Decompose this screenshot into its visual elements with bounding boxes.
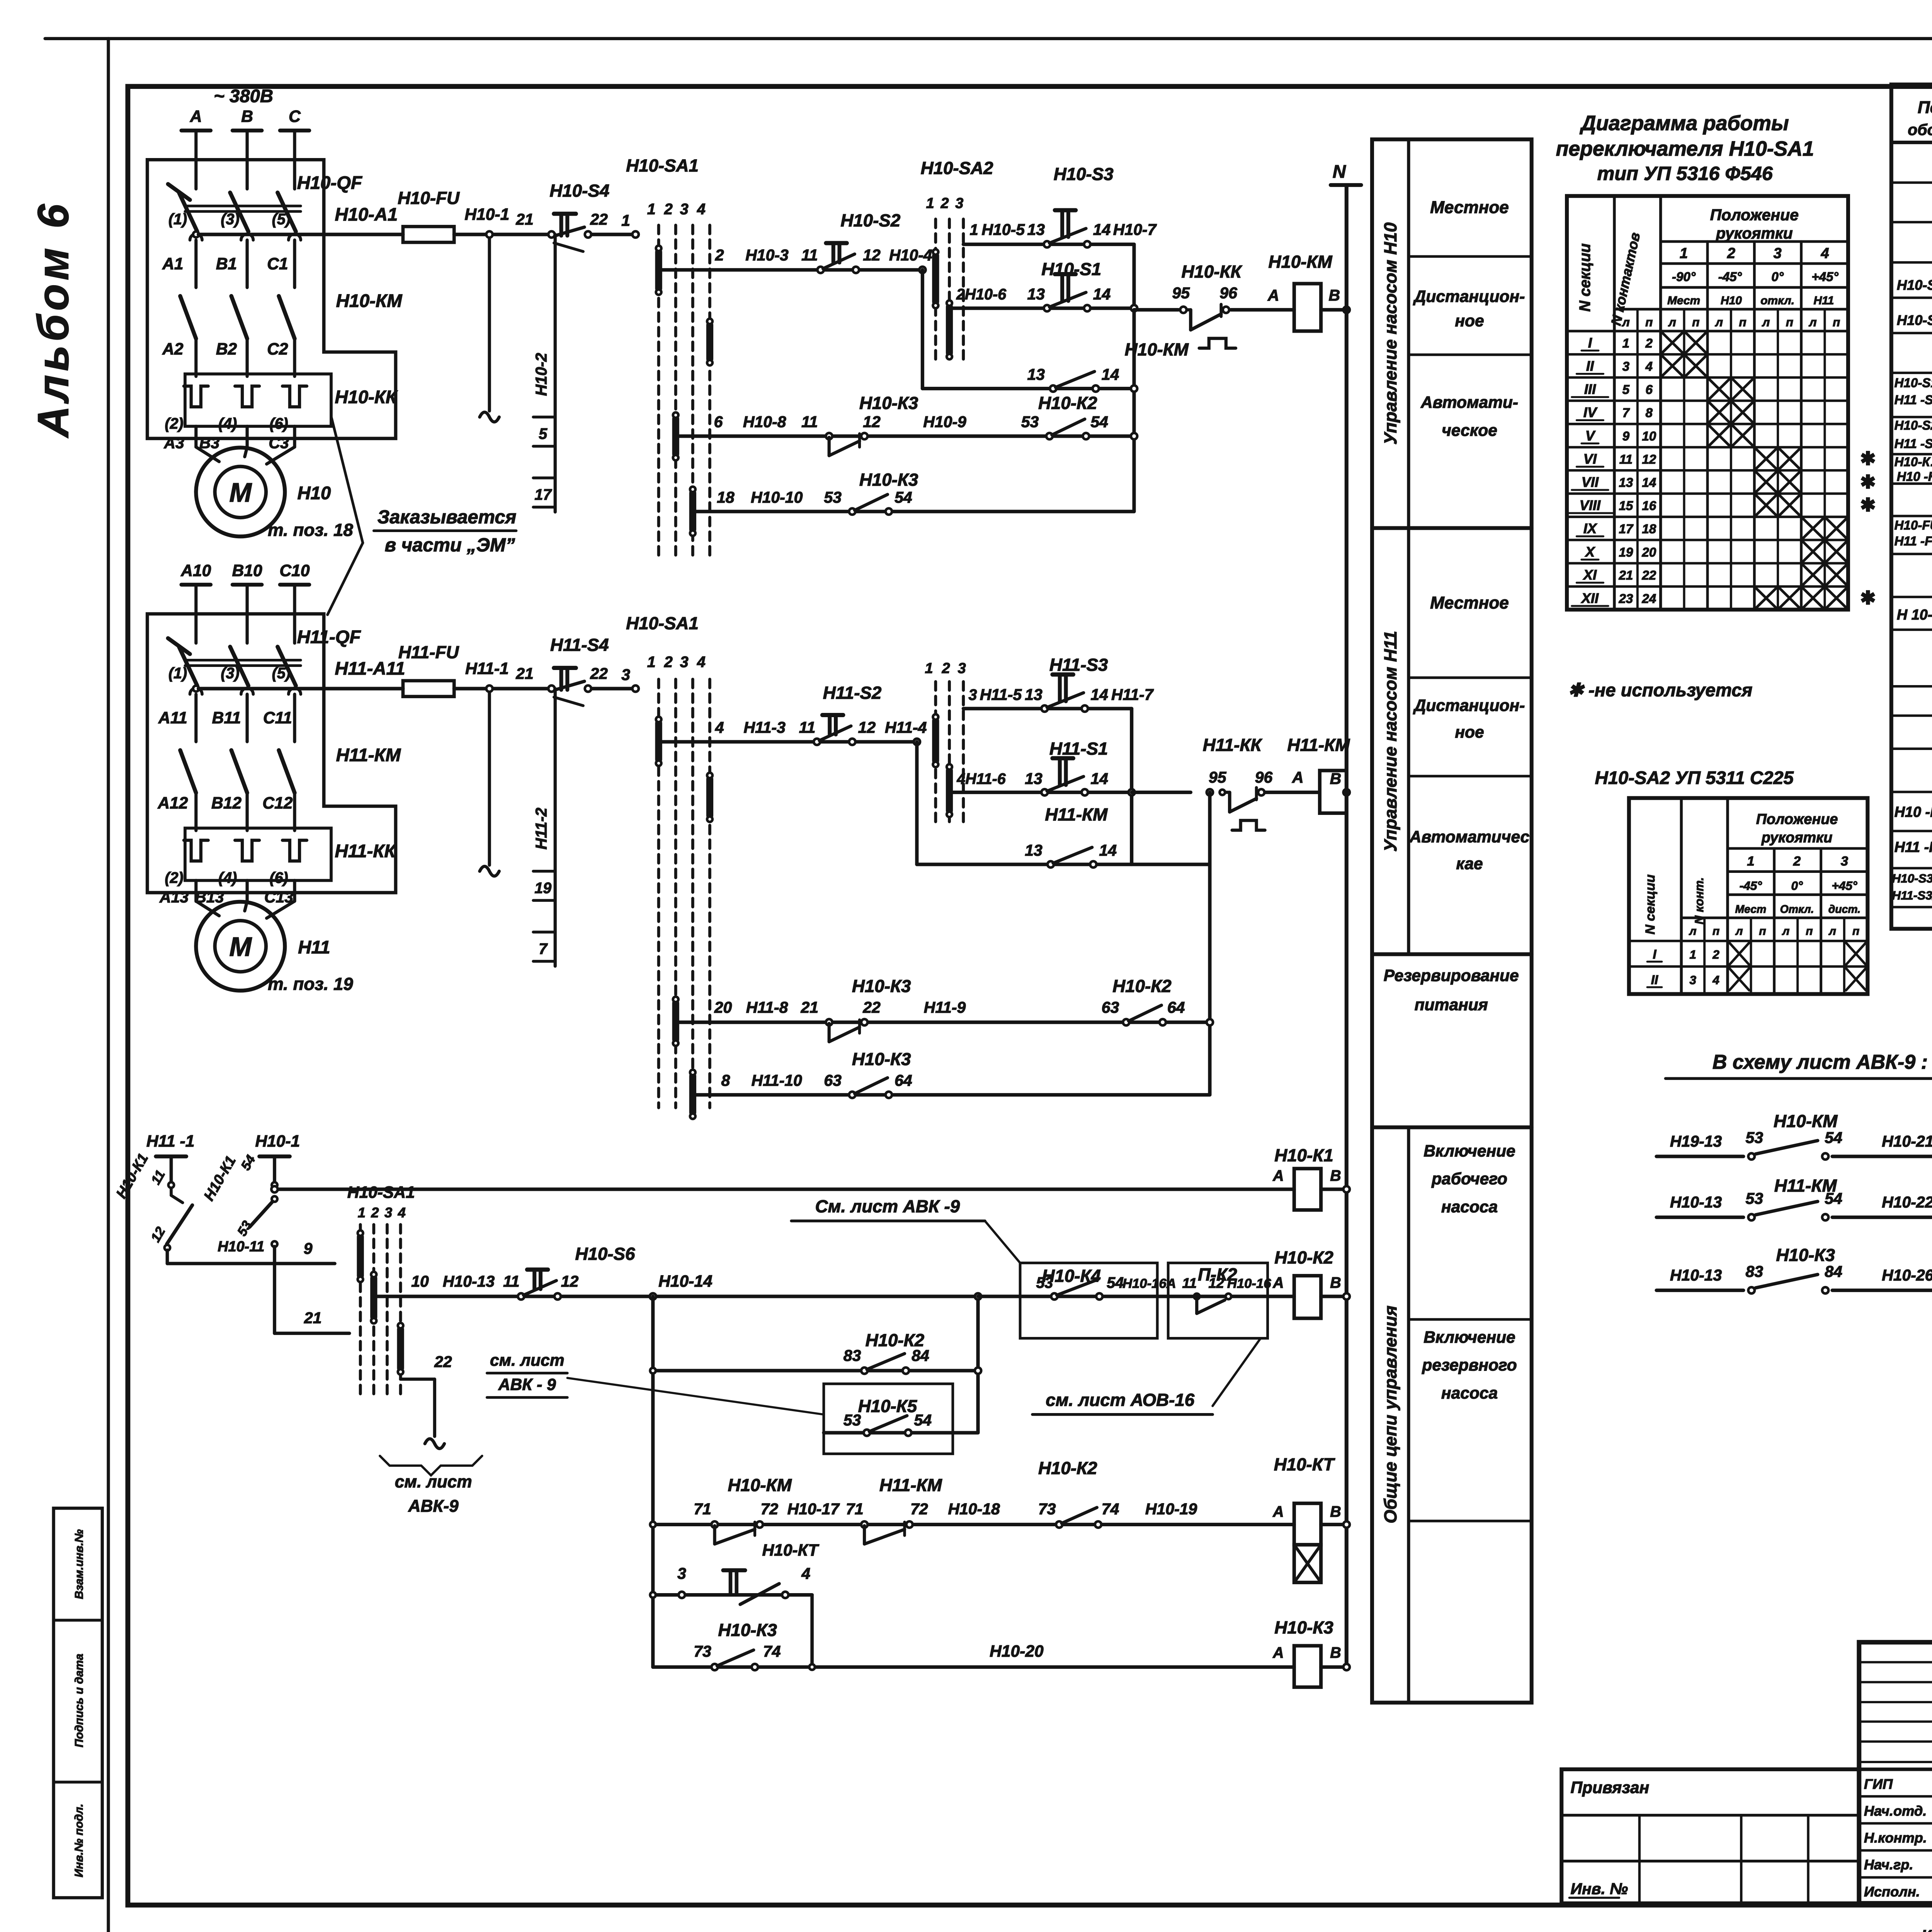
svg-text:Н10-4: Н10-4: [889, 246, 932, 264]
svg-text:Н10-К3: Н10-К3: [1274, 1618, 1333, 1638]
svg-text:л: л: [1828, 925, 1836, 937]
svg-text:17: 17: [1619, 522, 1633, 536]
svg-text:п: п: [1786, 315, 1793, 329]
svg-text:ное: ное: [1455, 311, 1484, 330]
svg-text:3: 3: [958, 660, 966, 677]
svg-text:64: 64: [895, 1071, 912, 1089]
svg-text:Н10-SA1: Н10-SA1: [626, 614, 699, 633]
svg-text:Н11-S3: Н11-S3: [1049, 655, 1108, 675]
svg-text:XI: XI: [1583, 567, 1597, 583]
svg-text:11: 11: [801, 413, 818, 431]
svg-text:Н11-7: Н11-7: [1111, 685, 1154, 703]
svg-text:В: В: [1330, 1503, 1341, 1520]
svg-text:Н11-1: Н11-1: [465, 659, 509, 678]
svg-text:13: 13: [1027, 221, 1045, 238]
svg-text:8: 8: [721, 1071, 730, 1089]
svg-text:Н10-9: Н10-9: [923, 413, 966, 431]
svg-text:2: 2: [715, 246, 724, 264]
svg-text:Н11-КМ: Н11-КМ: [336, 745, 401, 765]
svg-text:обозн.: обозн.: [1908, 121, 1932, 139]
svg-text:Исполн.: Исполн.: [1864, 1884, 1920, 1900]
svg-text:Н10-21: Н10-21: [1882, 1133, 1932, 1150]
svg-text:Взам.инв.№: Взам.инв.№: [73, 1529, 85, 1599]
svg-text:21: 21: [515, 665, 534, 682]
svg-text:71: 71: [846, 1500, 864, 1518]
svg-text:53: 53: [1021, 413, 1039, 431]
svg-text:см. лист: см. лист: [395, 1473, 472, 1492]
svg-text:Н10-3: Н10-3: [745, 246, 789, 264]
svg-text:3: 3: [384, 1204, 392, 1220]
svg-text:п: п: [1713, 925, 1719, 937]
svg-text:20: 20: [1641, 545, 1656, 560]
svg-text:73: 73: [694, 1643, 711, 1660]
svg-text:4: 4: [801, 1565, 810, 1582]
svg-text:л: л: [1689, 925, 1697, 937]
svg-text:С2: С2: [267, 340, 288, 358]
svg-text:21: 21: [304, 1309, 322, 1327]
svg-text:2: 2: [371, 1204, 379, 1220]
svg-text:Н11: Н11: [298, 937, 330, 958]
svg-text:4: 4: [697, 201, 706, 218]
svg-text:71: 71: [694, 1500, 711, 1518]
svg-text:✱: ✱: [1860, 588, 1876, 608]
svg-text:Диаграмма работы: Диаграмма работы: [1580, 112, 1789, 135]
svg-text:Н10-S1: Н10-S1: [1895, 376, 1932, 390]
svg-text:11: 11: [1619, 452, 1633, 467]
svg-text:Н10 -К3: Н10 -К3: [1897, 469, 1932, 484]
svg-text:12: 12: [863, 246, 881, 264]
svg-text:в части „ЭМ”: в части „ЭМ”: [385, 535, 515, 556]
svg-text:Н10-КК: Н10-КК: [1181, 262, 1242, 281]
svg-text:12: 12: [1208, 1275, 1224, 1291]
svg-text:1: 1: [970, 221, 978, 238]
svg-text:3: 3: [677, 1565, 686, 1582]
svg-text:11: 11: [503, 1272, 520, 1290]
svg-text:В: В: [1330, 770, 1342, 787]
svg-text:Н11 -S2: Н11 -S2: [1895, 437, 1932, 451]
svg-text:Н 10-КТ: Н 10-КТ: [1897, 607, 1932, 623]
svg-text:4Н11-6: 4Н11-6: [956, 770, 1006, 787]
svg-text:74: 74: [1102, 1500, 1119, 1518]
svg-text:Н10-8: Н10-8: [743, 413, 786, 431]
svg-text:Н10-18: Н10-18: [948, 1500, 1000, 1518]
svg-text:Н10-К3: Н10-К3: [852, 976, 911, 996]
svg-text:Н10-SA1: Н10-SA1: [1897, 277, 1932, 293]
svg-text:5: 5: [1622, 383, 1630, 397]
svg-text:(1): (1): [168, 211, 187, 228]
svg-text:п: п: [1852, 925, 1859, 937]
svg-text:дист.: дист.: [1828, 903, 1861, 916]
svg-text:Н10-SA2: Н10-SA2: [921, 158, 993, 178]
svg-text:Н11 -S1: Н11 -S1: [1895, 393, 1932, 407]
svg-text:1: 1: [1680, 245, 1688, 262]
svg-text:А13: А13: [159, 888, 189, 906]
svg-text:Н10-11: Н10-11: [218, 1239, 264, 1255]
svg-text:X: X: [1585, 544, 1595, 560]
svg-text:т. поз. 19: т. поз. 19: [268, 974, 353, 994]
svg-text:(2): (2): [165, 869, 183, 886]
svg-text:4: 4: [715, 718, 724, 736]
svg-text:Н10: Н10: [298, 483, 331, 503]
svg-text:Н10-13: Н10-13: [1670, 1266, 1722, 1284]
svg-text:14: 14: [1099, 842, 1117, 859]
svg-text:Н10-S3: Н10-S3: [1054, 164, 1114, 184]
svg-text:т. поз. 18: т. поз. 18: [268, 520, 353, 540]
svg-text:13: 13: [1027, 285, 1045, 303]
svg-text:11: 11: [799, 718, 816, 736]
svg-text:53: 53: [1746, 1190, 1764, 1207]
svg-text:л: л: [1668, 315, 1676, 329]
svg-text:Управление насосом Н10: Управление насосом Н10: [1381, 223, 1400, 445]
svg-text:С10: С10: [279, 561, 310, 580]
svg-text:С1: С1: [267, 255, 288, 273]
svg-text:22: 22: [590, 665, 608, 682]
svg-text:В: В: [1330, 1645, 1341, 1662]
svg-text:1: 1: [1689, 947, 1696, 961]
svg-text:2: 2: [942, 660, 950, 677]
svg-text:ное: ное: [1455, 723, 1484, 742]
svg-text:Н10-SA1: Н10-SA1: [347, 1183, 415, 1202]
svg-text:1: 1: [621, 212, 630, 230]
svg-text:3: 3: [621, 666, 630, 684]
svg-text:Н10: Н10: [1721, 294, 1742, 307]
svg-text:3: 3: [1622, 360, 1630, 374]
svg-text:Н10-КМ: Н10-КМ: [336, 291, 403, 311]
svg-text:Нач.отд.: Нач.отд.: [1864, 1803, 1927, 1819]
svg-text:12: 12: [1642, 452, 1656, 467]
svg-text:(4): (4): [218, 415, 237, 432]
svg-text:3: 3: [955, 196, 963, 212]
svg-text:Н10-19: Н10-19: [1145, 1500, 1197, 1518]
svg-text:14: 14: [1093, 221, 1111, 238]
svg-text:13: 13: [1025, 842, 1043, 859]
svg-text:72: 72: [910, 1500, 928, 1518]
svg-text:Автоматичес: Автоматичес: [1409, 828, 1530, 846]
svg-text:✱: ✱: [1860, 495, 1876, 515]
svg-text:20: 20: [714, 998, 732, 1016]
svg-text:+45°: +45°: [1811, 270, 1838, 284]
svg-text:В3: В3: [199, 434, 220, 452]
svg-text:N секции: N секции: [1577, 243, 1594, 312]
svg-text:Н11-10: Н11-10: [752, 1071, 802, 1089]
svg-text:N конт.: N конт.: [1692, 877, 1706, 924]
svg-text:2: 2: [1727, 245, 1735, 262]
svg-text:15: 15: [1619, 499, 1633, 513]
svg-text:54: 54: [1107, 1274, 1124, 1291]
svg-text:А3: А3: [163, 434, 184, 452]
svg-text:В: В: [1330, 1274, 1341, 1291]
svg-text:Управление насосом Н11: Управление насосом Н11: [1381, 631, 1400, 852]
svg-text:5: 5: [539, 425, 548, 442]
svg-text:ГИП: ГИП: [1864, 1776, 1893, 1792]
svg-text:Н10-КК: Н10-КК: [335, 387, 398, 407]
svg-text:6: 6: [1646, 383, 1653, 397]
svg-text:(3): (3): [221, 665, 239, 682]
svg-text:Н10-FU: Н10-FU: [1895, 518, 1932, 532]
svg-text:22: 22: [1641, 568, 1656, 583]
svg-text:А: А: [1292, 769, 1304, 786]
svg-text:В10: В10: [232, 561, 262, 580]
svg-text:2: 2: [1645, 336, 1653, 350]
svg-text:насоса: насоса: [1441, 1384, 1498, 1403]
svg-text:95: 95: [1172, 284, 1190, 302]
svg-text:10: 10: [1642, 429, 1656, 444]
svg-text:18: 18: [1642, 522, 1656, 536]
svg-text:п: п: [1645, 315, 1653, 329]
svg-text:11: 11: [1182, 1275, 1197, 1291]
svg-text:л: л: [1714, 315, 1723, 329]
svg-text:В2: В2: [216, 340, 237, 358]
svg-text:Н10-А1: Н10-А1: [335, 204, 398, 225]
svg-text:2: 2: [664, 653, 673, 670]
svg-text:(3): (3): [221, 211, 239, 228]
svg-text:6: 6: [714, 413, 723, 431]
svg-text:63: 63: [1102, 998, 1119, 1016]
svg-text:Местное: Местное: [1430, 594, 1509, 612]
svg-text:(6): (6): [269, 869, 288, 886]
svg-text:Нач.гр.: Нач.гр.: [1864, 1857, 1913, 1872]
svg-text:резервного: резервного: [1422, 1356, 1517, 1374]
svg-text:63: 63: [824, 1071, 842, 1089]
svg-text:84: 84: [1825, 1263, 1842, 1281]
svg-text:Н11-S2: Н11-S2: [823, 683, 881, 702]
svg-text:Н10-10: Н10-10: [751, 488, 803, 506]
svg-text:V: V: [1585, 428, 1596, 444]
svg-text:✱: ✱: [1860, 472, 1876, 492]
svg-text:Н10-16А: Н10-16А: [1122, 1276, 1176, 1291]
svg-text:2: 2: [1793, 854, 1801, 869]
svg-text:п: п: [1692, 315, 1699, 329]
svg-text:С3: С3: [269, 434, 289, 452]
svg-text:13: 13: [1619, 476, 1633, 490]
svg-text:Cм. лист АВК -9: Cм. лист АВК -9: [815, 1197, 960, 1216]
svg-text:95: 95: [1209, 769, 1227, 786]
svg-text:Мест: Мест: [1735, 903, 1766, 916]
svg-text:Н10-К3: Н10-К3: [859, 393, 918, 413]
svg-text:В11: В11: [212, 709, 241, 727]
svg-text:N секции: N секции: [1643, 874, 1658, 934]
svg-text:п: п: [1806, 925, 1813, 937]
svg-text:Н10-К…: Н10-К…: [1895, 455, 1932, 469]
svg-text:А12: А12: [157, 794, 188, 813]
svg-text:Общие цепи управления: Общие цепи управления: [1381, 1306, 1400, 1524]
svg-text:рабочего: рабочего: [1431, 1170, 1507, 1188]
svg-text:3: 3: [680, 653, 689, 670]
svg-text:В12: В12: [211, 794, 241, 813]
svg-text:Копировал :: Копировал :: [1921, 1927, 1932, 1932]
svg-text:Н11-5: Н11-5: [980, 685, 1022, 703]
svg-text:3: 3: [1774, 245, 1782, 262]
svg-text:А1: А1: [162, 255, 183, 273]
svg-text:А: А: [1272, 1503, 1284, 1520]
svg-text:Н10-17: Н10-17: [787, 1500, 840, 1518]
svg-text:54: 54: [895, 488, 912, 506]
svg-text:Инв.№ подл.: Инв.№ подл.: [73, 1804, 85, 1878]
svg-text:12: 12: [561, 1272, 579, 1290]
svg-text:3: 3: [1689, 973, 1696, 987]
svg-text:-90°: -90°: [1672, 270, 1696, 284]
svg-text:А10: А10: [180, 561, 211, 580]
svg-text:83: 83: [844, 1347, 861, 1364]
svg-text:Н11-2: Н11-2: [532, 808, 550, 850]
svg-text:73: 73: [1038, 1500, 1056, 1518]
svg-text:21: 21: [1618, 568, 1633, 583]
svg-text:А: А: [1267, 286, 1279, 304]
svg-text:Включение: Включение: [1423, 1142, 1515, 1160]
svg-text:9: 9: [1622, 429, 1630, 444]
svg-text:4: 4: [1712, 973, 1719, 987]
svg-text:VI: VI: [1583, 451, 1597, 467]
svg-text:4: 4: [398, 1204, 406, 1220]
svg-text:Н10-К3: Н10-К3: [1776, 1245, 1835, 1265]
svg-text:Н10-13: Н10-13: [443, 1272, 495, 1290]
svg-text:Н11 -КМ: Н11 -КМ: [1895, 839, 1932, 855]
svg-text:VII: VII: [1582, 474, 1599, 490]
svg-text:Подпись и дата: Подпись и дата: [73, 1654, 85, 1748]
svg-text:3: 3: [969, 686, 977, 703]
svg-text:Н10-22: Н10-22: [1882, 1193, 1932, 1211]
svg-text:Поз: Поз: [1918, 98, 1932, 117]
svg-text:4: 4: [697, 653, 706, 670]
svg-text:Н11 -FU: Н11 -FU: [1895, 534, 1932, 548]
svg-text:питания: питания: [1415, 996, 1488, 1014]
svg-text:Н10-КМ: Н10-КМ: [1774, 1111, 1838, 1131]
svg-text:Н10-S4: Н10-S4: [549, 181, 609, 201]
svg-text:Н10-К2: Н10-К2: [1112, 976, 1171, 996]
svg-text:0°: 0°: [1791, 879, 1803, 893]
svg-text:В: В: [241, 107, 253, 126]
svg-text:N: N: [1333, 162, 1346, 182]
svg-text:Н10-16: Н10-16: [1227, 1276, 1271, 1291]
svg-text:насоса: насоса: [1441, 1198, 1498, 1216]
svg-text:Н10-1: Н10-1: [464, 205, 509, 224]
svg-text:Мест: Мест: [1667, 294, 1700, 307]
svg-text:(4): (4): [218, 869, 237, 886]
svg-text:см. лист: см. лист: [490, 1351, 565, 1370]
svg-text:54: 54: [914, 1411, 932, 1429]
svg-text:Н10-К2: Н10-К2: [1274, 1248, 1333, 1267]
svg-text:Положение: Положение: [1756, 811, 1838, 828]
svg-text:Н11-КМ: Н11-КМ: [879, 1475, 942, 1495]
svg-text:Дистанцион-: Дистанцион-: [1413, 696, 1525, 715]
svg-text:✱ -не используется: ✱ -не используется: [1568, 680, 1752, 701]
svg-text:п: п: [1759, 925, 1766, 937]
svg-text:Н10-QF: Н10-QF: [297, 173, 362, 193]
svg-text:12: 12: [863, 413, 881, 431]
svg-text:64: 64: [1167, 998, 1185, 1016]
svg-text:7: 7: [1622, 406, 1630, 420]
svg-text:С12: С12: [262, 794, 293, 813]
svg-text:В1: В1: [216, 255, 237, 273]
svg-text:Н10-КТ: Н10-КТ: [762, 1541, 819, 1560]
svg-text:В схему лист АВК-9 :: В схему лист АВК-9 :: [1713, 1051, 1928, 1073]
svg-text:XII: XII: [1581, 590, 1599, 606]
svg-text:Н10-К5: Н10-К5: [858, 1396, 917, 1416]
svg-text:54: 54: [1825, 1190, 1842, 1207]
svg-text:В: В: [1328, 286, 1340, 304]
svg-text:Н10-SA2: Н10-SA2: [1897, 312, 1932, 328]
svg-text:Н11-4: Н11-4: [885, 718, 927, 736]
svg-text:III: III: [1584, 381, 1596, 397]
svg-text:53: 53: [1746, 1129, 1764, 1146]
svg-text:2Н10-6: 2Н10-6: [956, 286, 1007, 303]
svg-text:21: 21: [801, 998, 819, 1016]
svg-text:~ 380В: ~ 380В: [214, 86, 273, 107]
svg-text:11: 11: [801, 246, 818, 264]
svg-text:кае: кае: [1456, 854, 1483, 873]
svg-text:-45°: -45°: [1740, 879, 1762, 893]
svg-text:Н11-3: Н11-3: [743, 718, 786, 736]
svg-text:М: М: [229, 932, 252, 962]
svg-text:Местное: Местное: [1430, 198, 1509, 217]
svg-text:Инв. №: Инв. №: [1571, 1880, 1628, 1898]
svg-text:Н10-1: Н10-1: [255, 1132, 300, 1151]
svg-text:14: 14: [1090, 685, 1108, 703]
svg-text:Н19-13: Н19-13: [1670, 1133, 1722, 1150]
svg-text:1: 1: [925, 660, 933, 677]
svg-text:Н10-7: Н10-7: [1113, 221, 1157, 238]
svg-text:4: 4: [1821, 245, 1829, 262]
svg-text:4: 4: [1645, 360, 1653, 374]
svg-text:Н10-SA2 УП 5311 С225: Н10-SA2 УП 5311 С225: [1595, 768, 1794, 788]
svg-text:14: 14: [1093, 285, 1111, 303]
svg-text:переключателя Н10-SA1: переключателя Н10-SA1: [1556, 138, 1814, 160]
svg-text:Н11-КК: Н11-КК: [335, 841, 396, 862]
svg-text:А2: А2: [162, 340, 184, 358]
svg-text:Н10-К3: Н10-К3: [718, 1620, 777, 1640]
svg-text:0°: 0°: [1771, 270, 1784, 284]
svg-text:Н11-S4: Н11-S4: [550, 635, 609, 655]
svg-text:М: М: [229, 478, 252, 508]
svg-text:19: 19: [1619, 545, 1633, 560]
svg-text:Н10-S6: Н10-S6: [575, 1244, 635, 1264]
svg-text:13: 13: [1025, 685, 1043, 703]
svg-text:13: 13: [1025, 770, 1043, 787]
svg-text:1: 1: [647, 201, 656, 218]
svg-text:л: л: [1808, 315, 1817, 329]
svg-text:14: 14: [1090, 770, 1108, 787]
svg-text:Альбом 6: Альбом 6: [29, 201, 78, 439]
svg-text:п: п: [1833, 315, 1840, 329]
svg-text:Н.контр.: Н.контр.: [1864, 1830, 1927, 1846]
svg-text:2: 2: [664, 201, 673, 218]
svg-text:А11: А11: [158, 709, 187, 727]
svg-text:53: 53: [844, 1411, 861, 1429]
svg-text:(2): (2): [165, 415, 183, 432]
svg-text:рукоятки: рукоятки: [1761, 830, 1833, 846]
svg-text:Н10-К3: Н10-К3: [859, 470, 918, 490]
svg-text:I: I: [1653, 947, 1656, 962]
svg-text:83: 83: [1746, 1263, 1764, 1281]
svg-text:Н10-5: Н10-5: [981, 221, 1025, 238]
svg-text:А: А: [1272, 1167, 1284, 1184]
svg-text:Н11-КК: Н11-КК: [1203, 735, 1263, 755]
svg-text:96: 96: [1255, 769, 1273, 786]
svg-text:VIII: VIII: [1580, 497, 1601, 513]
svg-text:Н11-А11: Н11-А11: [335, 658, 405, 679]
svg-text:+45°: +45°: [1832, 879, 1857, 893]
svg-text:2: 2: [940, 196, 949, 212]
svg-text:Н11-S3/S4: Н11-S3/S4: [1892, 888, 1932, 902]
svg-text:✱: ✱: [1860, 449, 1876, 469]
svg-text:9: 9: [304, 1240, 313, 1257]
svg-text:1: 1: [1622, 336, 1629, 350]
svg-text:(5): (5): [272, 211, 291, 228]
svg-text:-45°: -45°: [1718, 270, 1742, 284]
svg-text:17: 17: [534, 486, 552, 503]
svg-text:В: В: [1330, 1167, 1341, 1184]
svg-text:12: 12: [858, 718, 876, 736]
